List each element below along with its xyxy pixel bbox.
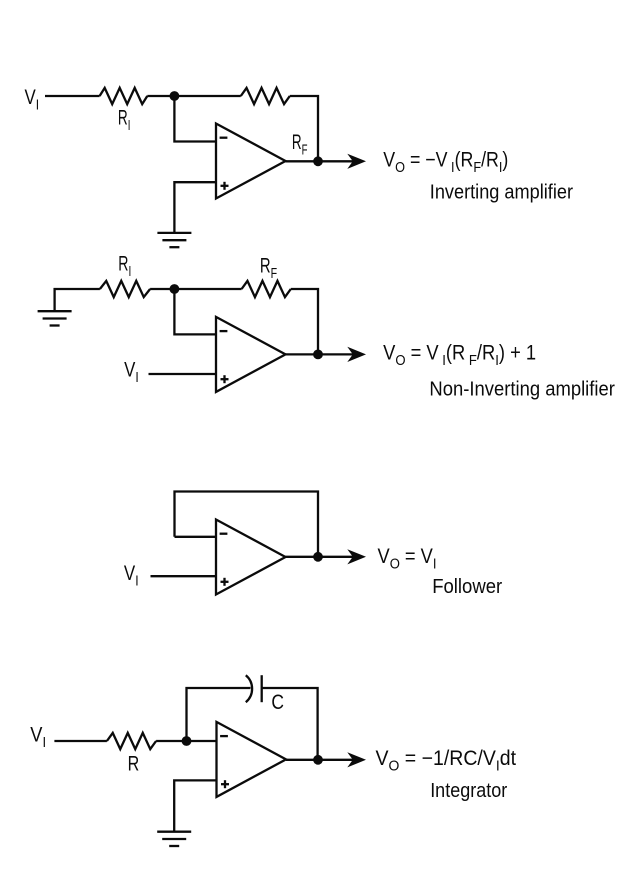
ground (circuit 1) — [157, 233, 191, 247]
wire V_I to R — [54, 740, 107, 742]
svg-text:RF: RF — [260, 254, 277, 282]
wire op-amp output to node (circuit 4) — [286, 759, 318, 761]
svg-text:RI: RI — [118, 253, 131, 281]
svg-text:Integrator: Integrator — [430, 779, 507, 802]
wire junction up to capacitor — [187, 688, 251, 741]
wire V_I to R_I — [45, 95, 100, 97]
wire non-inverting input to ground (circuit 4) — [174, 780, 216, 831]
node: inverting input junction (circuit 2) — [170, 284, 180, 294]
svg-text:VO = V I(R F/RI) + 1: VO = V I(R F/RI) + 1 — [383, 342, 536, 370]
wire op-amp output to node (circuit 3) — [286, 556, 319, 558]
node: output (circuit 1) — [313, 156, 323, 166]
resistor R_I (circuit 2) — [100, 281, 150, 297]
node: integrator summing junction — [182, 736, 192, 746]
svg-text:VO = −V I(RF/RI): VO = −V I(RF/RI) — [383, 149, 508, 177]
op-amp U4 — [217, 722, 287, 797]
svg-text:VI: VI — [124, 562, 139, 590]
svg-text:VO = −1/RC/VIdt: VO = −1/RC/VIdt — [376, 747, 517, 775]
wire capacitor to output node — [262, 688, 318, 760]
node: summing junction (circuit 1) — [170, 91, 180, 101]
wire R_I to summing junction and on to R_F — [147, 95, 241, 97]
op-amp U2 — [216, 317, 286, 392]
svg-text:Inverting amplifier: Inverting amplifier — [430, 180, 573, 203]
ground (circuit 4) — [157, 832, 191, 846]
svg-text:RF: RF — [292, 131, 308, 159]
wire V_I to non-inverting input (circuit 2) — [149, 373, 217, 375]
svg-text:Non-Inverting amplifier: Non-Inverting amplifier — [429, 377, 615, 400]
svg-text:VI: VI — [124, 358, 139, 386]
svg-text:C: C — [271, 691, 284, 714]
node: output (circuit 4) — [313, 755, 323, 765]
capacitor C (curved plate) — [246, 675, 252, 702]
wire non-inverting input to ground — [174, 182, 216, 233]
wire R_F to output node — [290, 96, 318, 161]
capacitor C (flat plate) — [261, 675, 263, 702]
wire R_I to junction to R_F — [150, 288, 242, 290]
wire ground to R_I — [55, 289, 100, 311]
op-amp U1 — [216, 124, 286, 199]
svg-text:R: R — [128, 753, 140, 776]
output arrow (circuit 3) — [318, 549, 366, 564]
svg-text:VI: VI — [30, 723, 46, 751]
svg-text:RI: RI — [118, 107, 131, 135]
output arrow (circuit 4) — [318, 752, 366, 767]
output arrow (circuit 2) — [318, 347, 366, 362]
wire R to junction to inverting input — [156, 740, 216, 742]
svg-text:Follower: Follower — [432, 575, 502, 598]
node: output (circuit 3) — [313, 552, 323, 562]
wire op-amp output to node — [286, 160, 319, 162]
wire to inverting input (circuit 3) — [175, 536, 217, 538]
ground (circuit 2) — [38, 311, 72, 325]
resistor R_I — [100, 88, 148, 104]
wire junction to inverting input (circuit 2) — [174, 289, 216, 334]
resistor R_F (circuit 2) — [242, 281, 291, 297]
op-amp U3 — [216, 520, 286, 595]
wire junction to inverting input — [174, 96, 216, 142]
resistor R_F (feedback) — [241, 88, 290, 104]
wire feedback loop output to inverting input — [175, 492, 319, 557]
wire op-amp output to node (circuit 2) — [286, 353, 319, 355]
output arrow (circuit 1) — [318, 154, 366, 169]
svg-text:VO = VI: VO = VI — [378, 545, 437, 573]
wire R_F to output node (circuit 2) — [291, 289, 318, 354]
svg-text:VI: VI — [25, 86, 40, 114]
wire V_I to non-inverting input (circuit 3) — [151, 575, 217, 577]
resistor R (circuit 4) — [107, 733, 156, 749]
node: output (circuit 2) — [313, 350, 323, 360]
